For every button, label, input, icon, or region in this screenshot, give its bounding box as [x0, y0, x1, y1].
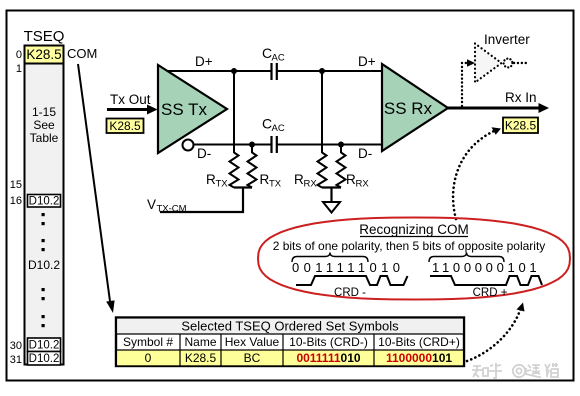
svg-text:BC: BC [244, 351, 261, 365]
svg-text:R: R [346, 172, 356, 187]
wire D+ down to RTX left [233, 71, 235, 153]
dotted arrow ellipse to K28.5 (Rx) [453, 127, 501, 219]
svg-text:Rx In: Rx In [505, 90, 537, 105]
TSEQ table column [25, 46, 64, 365]
Rx In wire [448, 103, 549, 113]
svg-text:15: 15 [10, 179, 22, 191]
wire D- (left of CAC) [194, 144, 272, 146]
svg-text:Inverter: Inverter [484, 32, 530, 47]
TSEQ row 30 cell D10.2 [28, 338, 61, 352]
svg-text:31: 31 [10, 354, 22, 366]
wire D+ (left of CAC) [167, 70, 271, 72]
svg-text:SS Rx: SS Rx [384, 99, 433, 118]
brace over CRD- bits [292, 253, 368, 263]
capacitor CAC (D- line) [272, 136, 277, 153]
svg-text:D+: D+ [358, 54, 376, 69]
ellipsis dots group 1 [42, 213, 45, 216]
symbol table grid [116, 334, 464, 366]
svg-text:See: See [33, 118, 55, 132]
svg-text:D-: D- [358, 146, 372, 161]
wire D+ down to RRX left [321, 71, 323, 153]
svg-text:Name: Name [184, 335, 216, 349]
K28.5 box (Rx) [503, 118, 538, 134]
ground [323, 202, 340, 213]
svg-text:0011111010: 0011111010 [292, 260, 404, 275]
junction node on D- at RRX [338, 142, 344, 148]
svg-text:TX: TX [216, 179, 229, 190]
symbol table header band [117, 319, 463, 334]
junction node on D- at RTX [249, 142, 255, 148]
wire D- (right of CAC) [278, 144, 394, 146]
inverter bubble [504, 59, 513, 68]
svg-text:TSEQ: TSEQ [24, 28, 65, 45]
svg-text:1: 1 [16, 63, 22, 75]
resistor RRX (left) [318, 153, 327, 188]
svg-text:TX-CM: TX-CM [157, 204, 187, 215]
dotted feed wire to inverter [462, 63, 467, 106]
svg-text:16: 16 [10, 195, 22, 207]
svg-text:V: V [147, 197, 156, 212]
svg-text:AC: AC [272, 123, 285, 134]
svg-text:R: R [206, 172, 216, 187]
svg-text:1100000101: 1100000101 [432, 260, 540, 275]
buffer SS Rx [382, 64, 448, 151]
resistor RRX (right) [337, 153, 346, 188]
svg-text:D10.2: D10.2 [29, 353, 60, 365]
junction node on D+ at RTX [231, 68, 237, 74]
dotted arrow table to CRD+ [467, 303, 525, 362]
wire RTX common bar [234, 186, 252, 188]
wire D+ (right of CAC) [278, 70, 393, 72]
svg-text:RX: RX [304, 179, 318, 190]
D- output bubble [183, 140, 194, 151]
wire to VTX-CM [160, 188, 243, 213]
svg-text:Table: Table [30, 131, 59, 145]
svg-text:R: R [294, 172, 304, 187]
svg-text:COM: COM [67, 46, 97, 61]
svg-text:K28.5: K28.5 [109, 119, 141, 133]
svg-text:1-15: 1-15 [32, 105, 56, 119]
Tx Out arrow [107, 105, 158, 115]
ellipsis dots group 4 [42, 315, 45, 318]
K28.5 box (Tx) [107, 119, 144, 134]
capacitor CAC (D+ line) [272, 63, 277, 80]
ellipsis dots group 3 [42, 288, 45, 291]
svg-text:D-: D- [197, 146, 211, 161]
arrowhead into inverter [467, 59, 475, 67]
svg-text:CRD -: CRD - [334, 287, 366, 299]
svg-text:R: R [260, 172, 270, 187]
Recognizing COM ellipse [258, 218, 570, 300]
svg-text:TX: TX [269, 179, 282, 190]
svg-text:Tx Out: Tx Out [110, 92, 151, 107]
svg-text:Recognizing COM: Recognizing COM [359, 222, 469, 237]
svg-text:Symbol #: Symbol # [123, 335, 173, 349]
inverter (dotted buffer) [475, 44, 502, 83]
svg-text:D10.2: D10.2 [29, 340, 60, 352]
svg-text:K28.5: K28.5 [26, 47, 61, 62]
svg-text:K28.5: K28.5 [505, 119, 537, 133]
brace over CRD+ bits [429, 253, 504, 263]
svg-text:0: 0 [16, 49, 22, 61]
wire D- down to RTX right [251, 145, 253, 154]
wire to ground [330, 188, 332, 203]
CRD- waveform [296, 276, 408, 285]
symbol table outer [116, 318, 464, 367]
svg-text:AC: AC [272, 53, 285, 64]
resistor RTX (right) [248, 153, 257, 188]
arrow COM to symbol table [78, 64, 115, 313]
TSEQ row 16 cell D10.2 [28, 195, 61, 208]
wire RRX common bar [322, 186, 341, 188]
svg-text:10-Bits (CRD-): 10-Bits (CRD-) [289, 335, 368, 349]
ellipsis dots group 2 [42, 239, 45, 242]
svg-text:0011111010: 0011111010 [296, 351, 360, 365]
TSEQ row 0 cell K28.5 [25, 46, 64, 64]
svg-text:Selected TSEQ Ordered Set Symb: Selected TSEQ Ordered Set Symbols [181, 319, 399, 334]
svg-text:SS Tx: SS Tx [161, 100, 207, 119]
CRD+ waveform [430, 276, 542, 285]
svg-text:30: 30 [10, 340, 22, 352]
wire D- down to RRX right [340, 145, 342, 154]
svg-text:RX: RX [356, 179, 370, 190]
junction node on D+ at RRX [319, 68, 325, 74]
svg-text:CRD +: CRD + [473, 287, 508, 299]
TSEQ row 31 cell D10.2 [28, 352, 61, 366]
watermark [472, 363, 558, 378]
resistor RTX (left) [230, 153, 239, 188]
dotted inverter output stub [514, 62, 529, 64]
svg-text:D10.2: D10.2 [28, 258, 60, 272]
buffer SS Tx [158, 65, 227, 153]
svg-text:1100000101: 1100000101 [386, 351, 452, 365]
svg-text:10-Bits (CRD+): 10-Bits (CRD+) [378, 335, 460, 349]
svg-text:D+: D+ [195, 54, 213, 69]
svg-text:Hex Value: Hex Value [225, 335, 280, 349]
symbol table data band [117, 351, 463, 366]
svg-text:2 bits of one polarity, then 5: 2 bits of one polarity, then 5 bits of o… [273, 239, 546, 253]
svg-text:D10.2: D10.2 [29, 196, 60, 208]
svg-text:0: 0 [145, 351, 152, 365]
svg-text:K28.5: K28.5 [185, 351, 217, 365]
